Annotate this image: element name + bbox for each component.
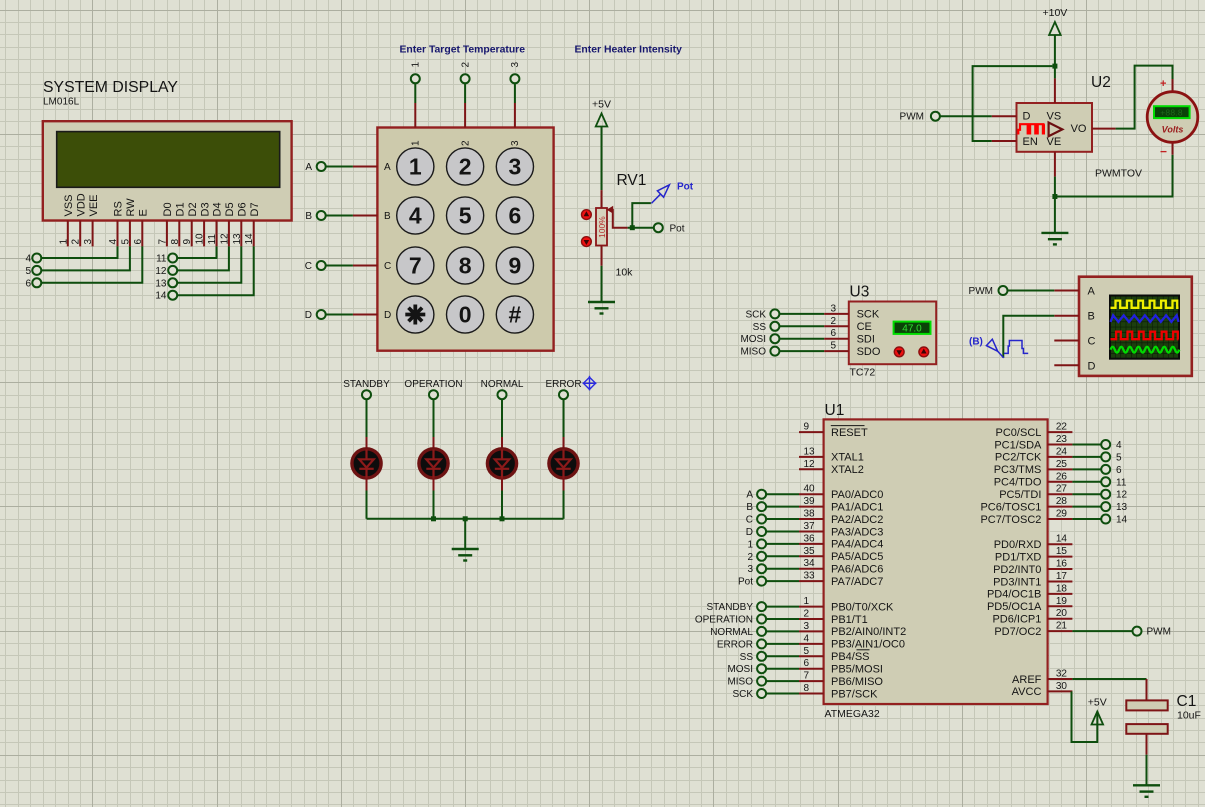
svg-text:21: 21 xyxy=(1056,621,1068,632)
svg-text:U3: U3 xyxy=(850,284,870,301)
svg-text:D4: D4 xyxy=(212,202,224,216)
svg-text:ERROR: ERROR xyxy=(545,379,581,390)
ground (RV1) xyxy=(588,302,615,314)
LCD pin 3 stub xyxy=(92,221,94,247)
svg-text:XTAL1: XTAL1 xyxy=(831,452,864,464)
terminal D (U1) xyxy=(757,527,766,536)
voltmeter PWMTOV body xyxy=(1147,92,1198,143)
terminal OPERATION (U1) xyxy=(757,615,766,624)
svg-text:U1: U1 xyxy=(825,402,845,419)
pin U3 SDO xyxy=(824,350,849,352)
svg-text:C: C xyxy=(384,261,391,272)
keypad button 3 xyxy=(496,148,533,185)
wire keypad column 3 xyxy=(514,84,516,103)
svg-text:ATMEGA32: ATMEGA32 xyxy=(825,708,880,720)
wire MOSI to U3 SDI xyxy=(780,338,825,340)
wire terminal OPERATION to U1 PB1/T1 xyxy=(766,618,799,620)
svg-text:D: D xyxy=(384,310,391,321)
svg-text:D2: D2 xyxy=(187,202,199,216)
wire terminal B to U1 PA1/ADC1 xyxy=(766,506,799,508)
svg-text:Enter Target Temperature: Enter Target Temperature xyxy=(400,45,526,56)
svg-text:1: 1 xyxy=(747,539,753,550)
svg-text:SS: SS xyxy=(740,652,754,663)
ground (U2) xyxy=(1041,233,1068,245)
annotation arrow (B) blue xyxy=(986,339,1003,358)
svg-text:11: 11 xyxy=(207,234,218,245)
svg-text:5: 5 xyxy=(120,239,131,245)
svg-text:Enter Heater Intensity: Enter Heater Intensity xyxy=(575,45,683,56)
svg-text:100%: 100% xyxy=(597,216,607,238)
svg-text:14: 14 xyxy=(244,233,255,245)
svg-text:3: 3 xyxy=(510,62,521,68)
LCD pin 11 stub xyxy=(216,221,218,247)
svg-text:8: 8 xyxy=(459,253,472,279)
U3 temperature display xyxy=(894,322,931,334)
pin U1 AVCC (30) xyxy=(1048,690,1073,692)
wire terminal MOSI to U1 PB5/MOSI xyxy=(766,668,799,670)
svg-text:PD5/OC1A: PD5/OC1A xyxy=(987,601,1042,613)
wire SS to U3 CE xyxy=(780,325,825,327)
svg-text:D: D xyxy=(305,310,312,321)
svg-text:Pot: Pot xyxy=(738,577,753,588)
pin U1 PA5/ADC5 (35) xyxy=(799,555,824,557)
svg-text:D5: D5 xyxy=(224,202,236,216)
svg-text:5: 5 xyxy=(804,646,810,657)
LCD pin 6 stub xyxy=(141,221,143,247)
junction RV1 wiper node xyxy=(630,225,635,230)
wire U1 PD7/OC2 to PWM terminal xyxy=(1072,630,1132,632)
LCD screen xyxy=(57,132,280,188)
terminal SS (U1) xyxy=(757,652,766,661)
svg-text:VEE: VEE xyxy=(88,194,100,216)
pin oscilloscope D xyxy=(1054,364,1079,366)
wire terminal 1 to U1 PA4/ADC4 xyxy=(766,543,799,545)
wire U2 EN loop to VS node xyxy=(973,66,1053,141)
pin oscilloscope C xyxy=(1054,340,1079,342)
terminal 4 (U1 right) xyxy=(1101,440,1110,449)
svg-text:C1: C1 xyxy=(1177,693,1197,710)
wire keypad row C xyxy=(326,265,353,267)
wire terminal ERROR to U1 PB3/AIN1/OC0 xyxy=(766,643,799,645)
svg-text:5: 5 xyxy=(459,203,472,229)
ground (C1) xyxy=(1133,785,1160,797)
keypad button 9 xyxy=(496,247,533,284)
pin U1 PC1/SDA (23) xyxy=(1048,444,1073,446)
svg-text:PA0/ADC0: PA0/ADC0 xyxy=(831,489,883,501)
pin U1 PA7/ADC7 (33) xyxy=(799,580,824,582)
pin U1 XTAL2 (12) xyxy=(799,468,824,470)
terminal 11 (LCD) xyxy=(168,254,177,263)
svg-text:NORMAL: NORMAL xyxy=(710,627,753,638)
svg-text:Pot: Pot xyxy=(670,224,685,235)
svg-text:27: 27 xyxy=(1056,484,1068,495)
svg-text:2: 2 xyxy=(830,316,836,327)
svg-text:STANDBY: STANDBY xyxy=(343,379,390,390)
terminal C (keypad) xyxy=(317,261,326,270)
oscilloscope trace D (green) xyxy=(1111,347,1180,353)
pin U2 VS xyxy=(1054,78,1056,103)
svg-text:C: C xyxy=(305,261,312,272)
svg-text:−: − xyxy=(1160,145,1167,159)
svg-text:PA2/ADC2: PA2/ADC2 xyxy=(831,514,883,526)
svg-text:4: 4 xyxy=(804,633,810,644)
svg-text:0: 0 xyxy=(459,302,472,328)
wire U1 PC4/TDO to terminal 11 xyxy=(1072,481,1101,483)
svg-text:13: 13 xyxy=(1116,502,1128,513)
svg-text:VDD: VDD xyxy=(75,193,87,216)
svg-text:30: 30 xyxy=(1056,681,1068,692)
terminal MISO (U3) xyxy=(770,347,779,356)
LCD pin 14 stub xyxy=(253,221,255,247)
svg-text:11: 11 xyxy=(1116,477,1127,488)
svg-text:5: 5 xyxy=(25,266,31,277)
wire voltmeter - to VE node xyxy=(1055,155,1173,197)
svg-text:PC2/TCK: PC2/TCK xyxy=(995,452,1042,464)
svg-text:PWM: PWM xyxy=(1147,627,1171,638)
svg-text:13: 13 xyxy=(804,446,816,457)
svg-text:34: 34 xyxy=(804,558,816,569)
svg-text:28: 28 xyxy=(1056,496,1068,507)
svg-text:+5V: +5V xyxy=(1088,697,1107,709)
svg-text:29: 29 xyxy=(1056,509,1068,520)
svg-text:33: 33 xyxy=(804,571,816,582)
wire RV1 to ground xyxy=(601,266,603,302)
wire U1 PC2/TCK to terminal 5 xyxy=(1072,456,1101,458)
pin voltmeter - xyxy=(1172,142,1174,155)
svg-text:3: 3 xyxy=(83,239,94,245)
terminal B (U1) xyxy=(757,502,766,511)
svg-text:10k: 10k xyxy=(616,267,634,279)
oscilloscope trace B (blue) xyxy=(1111,315,1179,322)
pin U1 PC0/SCL (22) xyxy=(1048,431,1073,433)
svg-text:2: 2 xyxy=(459,154,472,180)
svg-text:4: 4 xyxy=(108,239,119,245)
wire LED OPERATION to bus xyxy=(433,491,435,519)
wire keypad column 2 xyxy=(464,84,466,103)
svg-text:7: 7 xyxy=(157,239,168,245)
pin U1 PA4/ADC4 (36) xyxy=(799,543,824,545)
pin U1 XTAL1 (13) xyxy=(799,456,824,458)
svg-text:PA5/ADC5: PA5/ADC5 xyxy=(831,551,883,563)
LCD pin 10 stub xyxy=(203,221,205,247)
svg-text:6: 6 xyxy=(509,203,522,229)
wire terminal Pot to U1 PA7/ADC7 xyxy=(766,580,799,582)
svg-text:6: 6 xyxy=(25,278,31,289)
svg-text:25: 25 xyxy=(1056,459,1068,470)
wire STANDBY to LED xyxy=(366,400,368,438)
svg-text:47.0: 47.0 xyxy=(902,324,922,335)
terminal D (keypad) xyxy=(317,310,326,319)
svg-text:PD2/INT0: PD2/INT0 xyxy=(993,564,1041,576)
pin U1 PB0/T0/XCK (1) xyxy=(799,606,824,608)
svg-text:+88.8: +88.8 xyxy=(1160,108,1183,118)
U3 button up xyxy=(919,347,929,357)
svg-text:3: 3 xyxy=(509,154,522,180)
svg-text:1: 1 xyxy=(411,140,422,146)
keypad button * xyxy=(397,296,434,333)
svg-text:PC6/TOSC1: PC6/TOSC1 xyxy=(980,501,1041,513)
svg-text:A: A xyxy=(746,490,753,501)
wire terminal 4 to LCD pin xyxy=(42,246,118,258)
keypad row pin B xyxy=(353,215,378,217)
wire terminal 12 to LCD pin xyxy=(178,246,229,270)
wire U1 PC3/TMS to terminal 6 xyxy=(1072,468,1101,470)
svg-text:XTAL2: XTAL2 xyxy=(831,464,864,476)
pin oscilloscope B xyxy=(1054,315,1079,317)
terminal C (U1) xyxy=(757,515,766,524)
svg-text:14: 14 xyxy=(155,291,167,302)
svg-text:MOSI: MOSI xyxy=(727,664,753,675)
svg-text:37: 37 xyxy=(804,521,816,532)
svg-text:PA3/ADC3: PA3/ADC3 xyxy=(831,526,883,538)
pin U2 EN xyxy=(992,140,1017,142)
svg-text:C: C xyxy=(1088,336,1096,348)
svg-text:MOSI: MOSI xyxy=(740,334,766,345)
svg-text:PD1/TXD: PD1/TXD xyxy=(995,551,1042,563)
svg-text:23: 23 xyxy=(1056,434,1068,445)
pin U1 PA6/ADC6 (34) xyxy=(799,568,824,570)
svg-text:EN: EN xyxy=(1023,136,1038,148)
svg-text:3: 3 xyxy=(804,621,810,632)
terminal PWM (U2) xyxy=(931,112,940,121)
svg-text:1: 1 xyxy=(804,596,810,607)
U3 button down xyxy=(894,347,904,357)
terminal A (U1) xyxy=(757,490,766,499)
oscilloscope body xyxy=(1079,277,1192,376)
wire LED NORMAL to bus xyxy=(501,491,503,519)
svg-text:+: + xyxy=(1160,78,1166,90)
svg-text:1: 1 xyxy=(411,62,422,68)
pin U1 PD0/RXD (14) xyxy=(1048,543,1073,545)
svg-text:40: 40 xyxy=(804,484,816,495)
svg-text:SDI: SDI xyxy=(857,334,875,346)
keypad button 5 xyxy=(447,197,484,234)
LED D-STANDBY xyxy=(352,437,381,491)
wire C1 to ground xyxy=(1146,755,1148,786)
oscilloscope trace A (yellow) xyxy=(1111,301,1179,308)
svg-text:18: 18 xyxy=(1056,583,1068,594)
svg-text:PC3/TMS: PC3/TMS xyxy=(994,464,1042,476)
pin U3 SCK xyxy=(824,313,849,315)
keypad row pin C xyxy=(353,265,378,267)
pin U1 PA1/ADC1 (39) xyxy=(799,506,824,508)
pin U1 PA3/ADC3 (37) xyxy=(799,531,824,533)
svg-text:PB2/AIN0/INT2: PB2/AIN0/INT2 xyxy=(831,626,906,638)
svg-text:U2: U2 xyxy=(1091,74,1111,91)
pin U2 D xyxy=(992,115,1017,117)
oscilloscope screen xyxy=(1110,296,1179,359)
LCD pin 12 stub xyxy=(228,221,230,247)
LCD pin 2 stub xyxy=(79,221,81,247)
wire terminal 3 to U1 PA6/ADC6 xyxy=(766,568,799,570)
svg-text:OPERATION: OPERATION xyxy=(404,379,462,390)
svg-text:6: 6 xyxy=(1116,465,1122,476)
svg-text:PWM: PWM xyxy=(969,286,993,297)
LED D-OPERATION xyxy=(419,437,448,491)
LCD pin 5 stub xyxy=(129,221,131,247)
svg-text:10: 10 xyxy=(195,233,206,245)
LED D-NORMAL xyxy=(487,437,516,491)
wire terminal 2 to U1 PA5/ADC5 xyxy=(766,555,799,557)
svg-text:PWM: PWM xyxy=(900,112,924,123)
annotation arrow Pot (blue) xyxy=(651,185,669,204)
wire U1 PC5/TDI to terminal 12 xyxy=(1072,493,1101,495)
RV1 adjust button up xyxy=(582,210,592,220)
wire VE to ground xyxy=(1054,177,1056,233)
svg-text:AVCC: AVCC xyxy=(1012,686,1042,698)
svg-text:PB6/MISO: PB6/MISO xyxy=(831,676,883,688)
wire terminal NORMAL to U1 PB2/AIN0/INT2 xyxy=(766,630,799,632)
resistor RV1 body xyxy=(596,208,607,246)
pin U1 PB1/T1 (2) xyxy=(799,618,824,620)
LCD display LM016L body xyxy=(43,121,292,220)
wire terminal 11 to LCD pin xyxy=(178,246,217,258)
U2 PWM waveform icon xyxy=(1018,124,1045,134)
svg-text:3: 3 xyxy=(747,564,753,575)
terminal 14 (U1 right) xyxy=(1101,515,1110,524)
wire LED ground bus xyxy=(367,518,564,520)
terminal 3 (U1) xyxy=(757,564,766,573)
svg-text:+5V: +5V xyxy=(592,99,611,111)
svg-text:PB4/SS: PB4/SS xyxy=(831,651,870,663)
junction bus OPERATION xyxy=(431,516,436,521)
svg-text:PB7/SCK: PB7/SCK xyxy=(831,688,878,700)
svg-text:32: 32 xyxy=(1056,669,1068,680)
ground (LEDs) xyxy=(452,549,479,561)
svg-text:RW: RW xyxy=(125,198,137,217)
svg-text:D7: D7 xyxy=(249,202,261,216)
wire LED STANDBY to bus xyxy=(366,491,368,519)
svg-text:AREF: AREF xyxy=(1012,674,1042,686)
svg-text:39: 39 xyxy=(804,496,816,507)
svg-text:PD7/OC2: PD7/OC2 xyxy=(994,626,1041,638)
U3 TC72 body xyxy=(849,302,936,365)
pin RV1 top xyxy=(601,190,603,208)
wire PWM to U2 D xyxy=(940,115,992,117)
svg-text:#: # xyxy=(509,302,522,328)
pin U1 PD5/OC1A (19) xyxy=(1048,605,1073,607)
svg-text:4: 4 xyxy=(1116,440,1122,451)
wire +5V to RV1 xyxy=(601,127,603,191)
svg-text:14: 14 xyxy=(1056,534,1068,545)
wire keypad row A xyxy=(326,166,353,168)
svg-text:D: D xyxy=(1023,111,1031,123)
svg-text:VE: VE xyxy=(1047,136,1062,148)
svg-text:12: 12 xyxy=(1116,490,1128,501)
wire terminal A to U1 PA0/ADC0 xyxy=(766,493,799,495)
svg-text:16: 16 xyxy=(1056,559,1068,570)
svg-text:PC1/SDA: PC1/SDA xyxy=(994,439,1042,451)
terminal Pot (U1) xyxy=(757,577,766,586)
svg-text:B: B xyxy=(1088,311,1095,323)
wire wiper to Pot terminal xyxy=(628,227,654,229)
pin U1 PC2/TCK (24) xyxy=(1048,456,1073,458)
svg-text:2: 2 xyxy=(747,552,753,563)
wire U1 PC7/TOSC2 to terminal 14 xyxy=(1072,518,1101,520)
terminal 1 (U1) xyxy=(757,539,766,548)
svg-text:24: 24 xyxy=(1056,446,1068,457)
terminal STANDBY (U1) xyxy=(757,602,766,611)
svg-text:PC4/TDO: PC4/TDO xyxy=(994,477,1042,489)
pin U1 AREF (32) xyxy=(1048,678,1073,680)
U2 buffer triangle icon xyxy=(1049,123,1063,137)
terminal 6 (LCD) xyxy=(32,278,41,287)
terminal B (keypad) xyxy=(317,211,326,220)
svg-text:13: 13 xyxy=(155,278,167,289)
svg-text:PA6/ADC6: PA6/ADC6 xyxy=(831,564,883,576)
junction bus ground tap xyxy=(463,516,468,521)
RV1 wiper arrowhead xyxy=(607,206,614,214)
pin U1 PD4/OC1B (18) xyxy=(1048,593,1073,595)
svg-text:C: C xyxy=(746,515,753,526)
terminal 13 (U1 right) xyxy=(1101,502,1110,511)
svg-text:VSS: VSS xyxy=(63,194,75,216)
svg-text:4: 4 xyxy=(25,254,31,265)
svg-text:D3: D3 xyxy=(199,202,211,216)
junction VE node xyxy=(1052,194,1057,199)
svg-text:A: A xyxy=(1088,286,1096,298)
keypad body xyxy=(377,128,553,351)
svg-text:8: 8 xyxy=(804,683,810,694)
terminal 13 (LCD) xyxy=(168,278,177,287)
LCD pin 13 stub xyxy=(240,221,242,247)
pin U1 PA2/ADC2 (38) xyxy=(799,518,824,520)
wire scope B dangling xyxy=(1003,316,1054,358)
pin U1 PB3/AIN1/OC0 (4) xyxy=(799,643,824,645)
terminal 14 (LCD) xyxy=(168,291,177,300)
pin U1 PC6/TOSC1 (28) xyxy=(1048,506,1073,508)
pin U1 PC5/TDI (27) xyxy=(1048,493,1073,495)
pin U1 PC7/TOSC2 (29) xyxy=(1048,518,1073,520)
pin U1 PC3/TMS (25) xyxy=(1048,468,1073,470)
pin U2 VO xyxy=(1092,128,1116,130)
svg-text:NORMAL: NORMAL xyxy=(481,379,524,390)
terminal MOSI (U3) xyxy=(770,334,779,343)
svg-text:3: 3 xyxy=(510,140,521,146)
keypad row pin D xyxy=(353,314,378,316)
svg-text:OPERATION: OPERATION xyxy=(695,615,753,626)
terminal PWM (U1) xyxy=(1133,627,1142,636)
LCD pin 7 stub xyxy=(166,221,168,247)
wire terminal 13 to LCD pin xyxy=(178,246,242,282)
terminal column 3 xyxy=(510,74,519,83)
pin U1 PD6/ICP1 (20) xyxy=(1048,618,1073,620)
terminal column 1 xyxy=(411,74,420,83)
LCD pin 8 stub xyxy=(178,221,180,247)
svg-text:8: 8 xyxy=(170,239,181,245)
keypad column pin 2 xyxy=(464,103,466,128)
wire terminal C to U1 PA2/ADC2 xyxy=(766,518,799,520)
terminal SCK (U1) xyxy=(757,689,766,698)
svg-text:17: 17 xyxy=(1056,571,1068,582)
svg-text:E: E xyxy=(138,209,150,216)
svg-text:1: 1 xyxy=(409,154,422,180)
pin U1 PB2/AIN0/INT2 (3) xyxy=(799,630,824,632)
terminal SS (U3) xyxy=(770,322,779,331)
pin U1 RESET (9) xyxy=(799,431,824,433)
svg-text:+10V: +10V xyxy=(1042,7,1067,19)
svg-text:Volts: Volts xyxy=(1162,125,1184,135)
svg-text:7: 7 xyxy=(804,671,810,682)
pin U1 PD7/OC2 (21) xyxy=(1048,630,1073,632)
LCD pin 4 stub xyxy=(117,221,119,247)
keypad button 8 xyxy=(447,247,484,284)
oscilloscope trace C (red) xyxy=(1111,332,1179,340)
terminal Pot (RV1) xyxy=(654,223,663,232)
svg-text:B: B xyxy=(746,502,753,513)
svg-text:11: 11 xyxy=(156,254,167,265)
pin U1 PD3/INT1 (17) xyxy=(1048,581,1073,583)
